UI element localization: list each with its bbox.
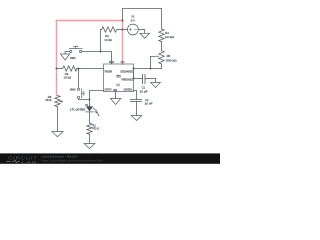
ground SW1 xyxy=(60,54,69,60)
svg-text:500 kΩ: 500 kΩ xyxy=(166,58,177,62)
svg-text:10 kΩ: 10 kΩ xyxy=(165,35,175,39)
wire output pin xyxy=(90,91,104,107)
wire D1 to R1 xyxy=(89,112,91,123)
wire R5 wiper down xyxy=(150,57,152,69)
voltage source V1 xyxy=(127,15,138,35)
svg-text:TRIGGER: TRIGGER xyxy=(105,70,113,74)
wire top horizontal xyxy=(123,8,162,10)
switch SW2 xyxy=(70,87,84,98)
svg-text:15 pF: 15 pF xyxy=(140,89,148,93)
wire R5 bottom lead xyxy=(161,64,163,69)
node R3 red rail junction xyxy=(56,68,58,70)
wire R2 right to V1 xyxy=(118,29,128,31)
svg-text:D1: D1 xyxy=(85,103,89,107)
wire R3 net down to SW2 xyxy=(78,69,80,88)
svg-text:CONTROL: CONTROL xyxy=(124,87,133,91)
capacitor C2 xyxy=(131,98,153,106)
svg-text:http://circuitlab.com/c/readc4: http://circuitlab.com/c/readc4mzz24x xyxy=(42,158,104,162)
switch SW1 xyxy=(69,46,82,59)
wire C2 to ground xyxy=(136,102,138,116)
ground V1 xyxy=(140,30,149,39)
svg-text:10 nF: 10 nF xyxy=(145,102,153,106)
wire V+ left vertical red xyxy=(56,21,58,96)
resistor R2 xyxy=(101,27,118,42)
555 timer U1 xyxy=(104,60,134,92)
node red corner junction xyxy=(122,20,124,22)
svg-text:U1: U1 xyxy=(117,83,120,87)
wire VCC vertical red xyxy=(122,21,124,65)
resistor R4 xyxy=(159,29,175,42)
wire R1 to ground xyxy=(89,134,91,143)
svg-text:10 kΩ: 10 kΩ xyxy=(64,76,72,80)
logo CIRCUITLAB xyxy=(6,155,37,164)
watermark bar xyxy=(0,153,220,164)
node threshold pin junction xyxy=(133,78,135,80)
node output net junction xyxy=(89,99,91,101)
svg-text:C1: C1 xyxy=(142,86,146,90)
node R2 branch junction xyxy=(100,51,102,53)
svg-text:SW1: SW1 xyxy=(70,56,76,60)
node R2 red rail junction xyxy=(122,29,124,31)
wire control pin to C2 xyxy=(134,91,137,100)
ground R6 xyxy=(52,132,63,137)
capacitor C1 xyxy=(134,75,156,94)
node discharge pin junction xyxy=(133,68,135,70)
svg-text:SW2: SW2 xyxy=(70,87,76,91)
ground U1 xyxy=(110,99,120,105)
wire R6 to ground xyxy=(57,107,59,132)
svg-text:9 V: 9 V xyxy=(131,18,135,22)
wire discharge horizontal xyxy=(134,68,162,70)
wire V+ top horizontal red xyxy=(57,20,123,22)
svg-text:555: 555 xyxy=(116,75,120,79)
wire SW1 left to ground xyxy=(65,52,70,55)
wire threshold link on box edge xyxy=(133,69,135,79)
wire top black vertical xyxy=(122,9,124,21)
svg-text:V1: V1 xyxy=(131,15,134,19)
potentiometer R6 xyxy=(46,95,63,107)
svg-text:LTL-307EE: LTL-307EE xyxy=(70,108,85,112)
ground C1 xyxy=(151,79,161,88)
wire gnd pin xyxy=(115,92,117,99)
potentiometer R5 xyxy=(151,51,178,64)
LED D1 xyxy=(70,103,100,116)
ground C2 xyxy=(131,116,142,121)
ground R1 xyxy=(84,144,95,149)
svg-text:10 kΩ: 10 kΩ xyxy=(104,38,112,42)
resistor R3 xyxy=(57,66,104,80)
resistor R1 xyxy=(87,123,100,134)
wire V1 to ground xyxy=(138,29,143,31)
wire right branch down to R4 xyxy=(161,9,163,30)
svg-text:standokamua - My555: standokamua - My555 xyxy=(42,154,79,158)
wire R4 to R5 xyxy=(161,42,163,51)
svg-text:470 Ω: 470 Ω xyxy=(93,127,100,131)
svg-text:DISCHARGE: DISCHARGE xyxy=(121,69,133,73)
wire SW1 to reset xyxy=(82,52,112,65)
svg-text:LAB: LAB xyxy=(22,160,38,164)
svg-text:25 kΩ: 25 kΩ xyxy=(46,98,53,102)
node SW2 branch junction xyxy=(78,68,80,70)
svg-text:THRESHOLD: THRESHOLD xyxy=(121,78,133,82)
svg-text:CIRCUIT: CIRCUIT xyxy=(8,155,38,160)
svg-text:R5: R5 xyxy=(167,54,171,58)
node discharge-pot junction xyxy=(150,68,152,70)
svg-text:OUTPUT: OUTPUT xyxy=(105,87,112,91)
svg-text:R4: R4 xyxy=(165,31,169,35)
wire SW2 bottom to output net xyxy=(79,98,90,99)
wire R2 left lead down xyxy=(100,30,102,52)
